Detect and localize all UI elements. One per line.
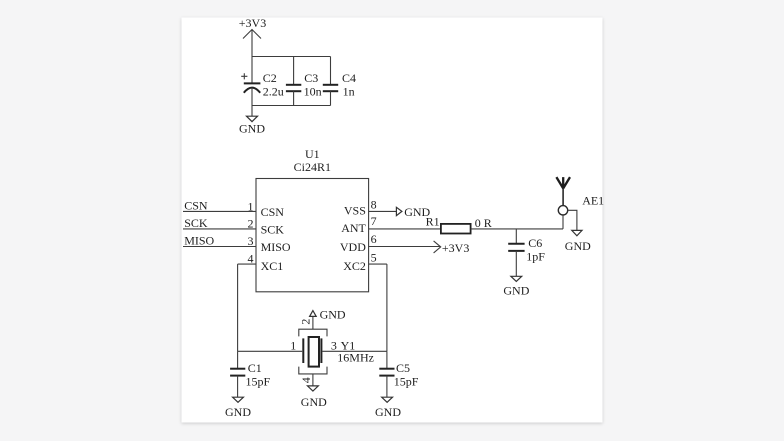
svg-text:+3V3: +3V3 xyxy=(239,16,266,30)
capacitor C6 xyxy=(508,244,524,251)
wire pin 3 xyxy=(183,246,256,248)
port arrow GND pin8 xyxy=(396,207,402,215)
svg-text:Ci24R1: Ci24R1 xyxy=(294,160,331,174)
svg-text:GND: GND xyxy=(301,395,327,409)
resistor R1 xyxy=(441,224,471,234)
wire antenna down xyxy=(562,215,564,229)
svg-text:4: 4 xyxy=(248,252,254,266)
wire C6 lower lead xyxy=(515,251,517,276)
capacitor C2 xyxy=(244,83,261,92)
wire antenna circle to gnd xyxy=(568,210,577,230)
antenna AE1 xyxy=(556,177,570,215)
svg-text:GND: GND xyxy=(565,239,591,253)
wire pin 4 vertical xyxy=(237,264,239,351)
svg-text:3: 3 xyxy=(248,234,254,248)
wire top rail xyxy=(252,56,331,58)
op-amp U1 body xyxy=(256,179,369,292)
wire pin 6 xyxy=(369,246,440,248)
svg-text:C6: C6 xyxy=(528,236,542,250)
ground symbol C1 xyxy=(233,397,244,402)
schematic white panel xyxy=(182,18,603,423)
svg-text:R1: R1 xyxy=(426,215,440,229)
wire C5 upper lead xyxy=(386,351,388,368)
wire C3 branch xyxy=(293,57,295,85)
svg-text:1: 1 xyxy=(248,199,254,213)
crystal Y1 xyxy=(299,329,327,374)
ground symbol AE1 xyxy=(572,230,582,235)
svg-text:AE1: AE1 xyxy=(582,194,604,208)
svg-text:1n: 1n xyxy=(343,84,355,98)
svg-text:+3V3: +3V3 xyxy=(442,241,469,255)
svg-text:GND: GND xyxy=(503,283,529,297)
wire C2 branch xyxy=(251,57,253,84)
capacitor C1 xyxy=(230,369,245,376)
wire crystal left xyxy=(238,350,303,352)
svg-text:10n: 10n xyxy=(304,84,322,98)
svg-text:C4: C4 xyxy=(342,71,356,85)
wire C5 lower lead xyxy=(386,376,388,398)
svg-text:0 R: 0 R xyxy=(475,216,492,230)
capacitor C4 xyxy=(323,85,338,91)
wire pin 8 xyxy=(369,210,397,212)
svg-text:C5: C5 xyxy=(396,361,410,375)
svg-text:3: 3 xyxy=(331,338,337,352)
wire to ground xyxy=(251,106,253,117)
svg-text:VDD: VDD xyxy=(340,240,366,254)
wire C1 upper lead xyxy=(237,351,239,368)
ground symbol C6 xyxy=(511,276,522,281)
svg-text:15pF: 15pF xyxy=(394,374,419,388)
svg-text:XC1: XC1 xyxy=(261,259,284,273)
svg-text:GND: GND xyxy=(375,405,401,419)
capacitor C2 polarity plus xyxy=(241,73,247,79)
svg-text:7: 7 xyxy=(371,214,377,228)
wire crystal pin 2 up xyxy=(312,317,314,330)
wire pin 4 stub xyxy=(238,263,256,265)
svg-text:6: 6 xyxy=(371,232,377,246)
svg-text:16MHz: 16MHz xyxy=(337,351,374,365)
svg-text:1: 1 xyxy=(290,339,296,353)
power arrow +3V3 pin6 xyxy=(434,241,441,253)
svg-text:MISO: MISO xyxy=(184,234,214,248)
wire resistor to antenna xyxy=(471,228,563,230)
svg-text:SCK: SCK xyxy=(261,222,285,236)
wire bottom rail xyxy=(252,105,331,107)
ground symbol up crystal xyxy=(310,311,317,317)
svg-text:CSN: CSN xyxy=(261,205,285,219)
svg-text:2: 2 xyxy=(299,319,313,325)
svg-text:SCK: SCK xyxy=(184,216,208,230)
svg-text:1pF: 1pF xyxy=(526,250,545,264)
svg-text:GND: GND xyxy=(225,405,251,419)
ground symbol C5 xyxy=(382,397,393,402)
svg-text:VSS: VSS xyxy=(344,204,366,218)
wire crystal right xyxy=(322,350,387,352)
wire C2 lower lead xyxy=(251,88,253,106)
wire pin 2 xyxy=(183,228,256,230)
wire C3 lower lead xyxy=(293,91,295,105)
svg-text:4: 4 xyxy=(299,377,313,383)
svg-text:15pF: 15pF xyxy=(246,374,271,388)
wire pin 5 stub xyxy=(369,263,387,265)
svg-text:CSN: CSN xyxy=(184,199,208,213)
wire C1 lower lead xyxy=(237,376,239,398)
svg-text:C2: C2 xyxy=(263,71,277,85)
power port +3V3 (top) xyxy=(239,16,266,57)
ground symbol crystal bottom xyxy=(308,386,319,391)
wire C6 branch xyxy=(515,229,517,244)
svg-text:8: 8 xyxy=(371,198,377,212)
svg-text:ANT: ANT xyxy=(341,221,366,235)
capacitor C5 xyxy=(379,369,394,376)
wire C4 branch xyxy=(330,57,332,85)
wire pin 1 xyxy=(183,210,256,212)
svg-text:2: 2 xyxy=(248,216,254,230)
wire crystal pin 4 down xyxy=(312,374,314,386)
svg-text:C1: C1 xyxy=(248,361,262,375)
svg-text:2.2u: 2.2u xyxy=(263,84,284,98)
svg-text:MISO: MISO xyxy=(261,240,291,254)
svg-text:GND: GND xyxy=(320,308,346,322)
capacitor C3 xyxy=(286,85,301,91)
wire pin 7 to resistor xyxy=(369,228,441,230)
ground symbol top xyxy=(247,116,258,121)
svg-text:5: 5 xyxy=(371,250,377,264)
wire pin 5 vertical xyxy=(386,264,388,351)
svg-text:GND: GND xyxy=(239,122,265,136)
svg-text:U1: U1 xyxy=(305,147,320,161)
svg-text:C3: C3 xyxy=(304,71,318,85)
svg-text:XC2: XC2 xyxy=(343,259,366,273)
wire C4 lower lead xyxy=(330,91,332,105)
